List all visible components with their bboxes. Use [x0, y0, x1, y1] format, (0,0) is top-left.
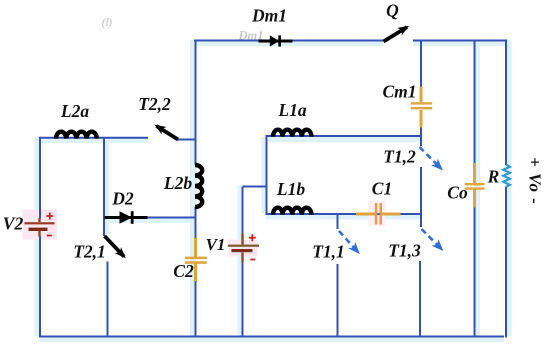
wire: L1a horizontal: [266, 135, 422, 137]
wire: top right segment: [413, 40, 506, 42]
svg-text:L2a: L2a: [60, 101, 89, 121]
capacitor C2: [185, 238, 207, 281]
switch T1,1 (dashed blue arrow): [339, 231, 358, 252]
svg-text:L2b: L2b: [163, 173, 192, 193]
svg-text:D2: D2: [111, 189, 134, 209]
svg-text:L1a: L1a: [277, 100, 306, 120]
svg-text:C1: C1: [372, 179, 392, 199]
halo backdrop strokes: [38, 40, 509, 339]
svg-text:+ Vo -: + Vo -: [526, 157, 545, 205]
svg-text:T2,2: T2,2: [138, 94, 171, 114]
svg-text:Dm1: Dm1: [251, 6, 287, 26]
inductor L2a: [56, 132, 97, 139]
battery V1: [228, 234, 259, 263]
capacitor C1 (horizontal): [356, 203, 401, 225]
svg-text:Co: Co: [447, 183, 468, 203]
svg-text:Q: Q: [386, 1, 399, 21]
wire: L2a horizontal: [40, 137, 148, 139]
wire: D2/T2,1 branch vertical: [104, 138, 108, 337]
switch T1,2 (dashed blue arrow): [420, 147, 441, 168]
svg-text:Cm1: Cm1: [382, 82, 416, 102]
wire: T2,2 right stub: [177, 139, 196, 141]
battery V2: [25, 213, 55, 237]
switch T2,2 (black arrow): [157, 126, 179, 140]
pink highlight behind battery V1: [229, 240, 258, 257]
inductor L1b: [273, 208, 311, 215]
resistor R (zigzag): [503, 165, 510, 187]
wire: L1 loop left vertical: [266, 135, 268, 215]
wire: R branch vertical: [505, 40, 507, 338]
capacitor Co: [465, 163, 485, 208]
pink highlight behind capacitor C1: [368, 201, 386, 226]
wire: mid-right vertical x=421: [420, 40, 421, 338]
wire: V1 to loop stub: [243, 186, 268, 188]
wire: V1 branch vertical: [242, 187, 244, 338]
wire: left rail vertical: [39, 137, 41, 338]
diode Dm1: [259, 35, 293, 46]
wire: main left-mid vertical x=195.5: [195, 40, 197, 338]
pink highlight behind battery V2: [23, 210, 58, 240]
inductor L1a: [273, 130, 311, 137]
svg-text:R: R: [487, 167, 500, 187]
svg-text:T1,2: T1,2: [383, 147, 416, 167]
wire: D2 row blue part: [146, 217, 196, 219]
switch Q (black arrow): [384, 27, 408, 41]
switch T2,1 (black arrow): [105, 236, 125, 257]
wire: Co branch vertical: [474, 40, 476, 338]
wire: bottom rail: [39, 336, 504, 338]
svg-text:(l): (l): [101, 15, 112, 29]
switch T1,3 (dashed blue arrow): [422, 229, 442, 249]
inductor L2b (vertical): [195, 165, 202, 207]
svg-text:C2: C2: [173, 261, 194, 281]
wire: L1b / C1 row: [266, 213, 421, 215]
wire: top left segment with Dm1: [194, 40, 384, 42]
svg-text:T1,3: T1,3: [388, 241, 421, 261]
svg-text:L1b: L1b: [276, 179, 305, 199]
svg-text:T1,1: T1,1: [312, 242, 345, 262]
diode D2: [105, 211, 148, 224]
wire: T1,1 branch vertical: [337, 213, 339, 338]
svg-text:V1: V1: [206, 235, 226, 254]
capacitor Cm1: [411, 87, 432, 128]
svg-text:V2: V2: [3, 214, 24, 234]
svg-text:T2,1: T2,1: [73, 242, 106, 262]
